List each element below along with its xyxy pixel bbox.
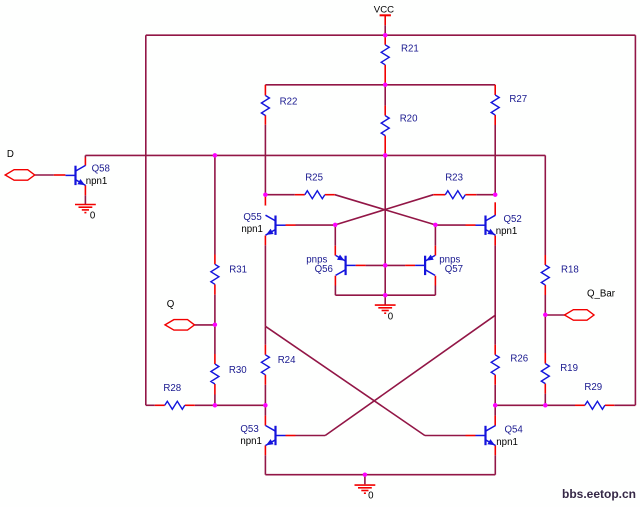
svg-text:Q54: Q54 [505, 425, 524, 436]
svg-text:Q: Q [167, 299, 175, 310]
svg-text:R30: R30 [229, 365, 247, 376]
svg-text:R20: R20 [400, 113, 418, 124]
svg-text:npn1: npn1 [496, 226, 518, 237]
svg-text:Q_Bar: Q_Bar [587, 289, 616, 300]
svg-text:0: 0 [388, 312, 394, 323]
svg-text:0: 0 [90, 211, 96, 222]
svg-text:Q55: Q55 [243, 212, 261, 223]
svg-text:R23: R23 [445, 173, 463, 184]
svg-text:R29: R29 [584, 382, 602, 393]
svg-text:R19: R19 [560, 363, 578, 374]
svg-text:R28: R28 [163, 383, 181, 394]
svg-text:R26: R26 [510, 353, 528, 364]
svg-text:npn1: npn1 [86, 176, 108, 187]
svg-text:R24: R24 [278, 355, 296, 366]
svg-text:VCC: VCC [374, 5, 394, 16]
svg-text:R21: R21 [401, 44, 419, 55]
svg-text:Q57: Q57 [445, 264, 463, 275]
svg-text:Q53: Q53 [240, 424, 258, 435]
svg-text:0: 0 [368, 491, 374, 502]
svg-text:R18: R18 [561, 264, 579, 275]
svg-text:npn1: npn1 [241, 224, 263, 235]
svg-text:Q58: Q58 [92, 164, 110, 175]
svg-text:R31: R31 [229, 265, 247, 276]
svg-text:Q52: Q52 [504, 214, 522, 225]
svg-text:Q56: Q56 [315, 264, 333, 275]
svg-text:R22: R22 [280, 97, 298, 108]
svg-text:R27: R27 [509, 94, 527, 105]
svg-text:R25: R25 [305, 173, 323, 184]
svg-text:npn1: npn1 [240, 436, 262, 447]
svg-text:D: D [7, 149, 14, 160]
svg-text:npn1: npn1 [496, 437, 518, 448]
